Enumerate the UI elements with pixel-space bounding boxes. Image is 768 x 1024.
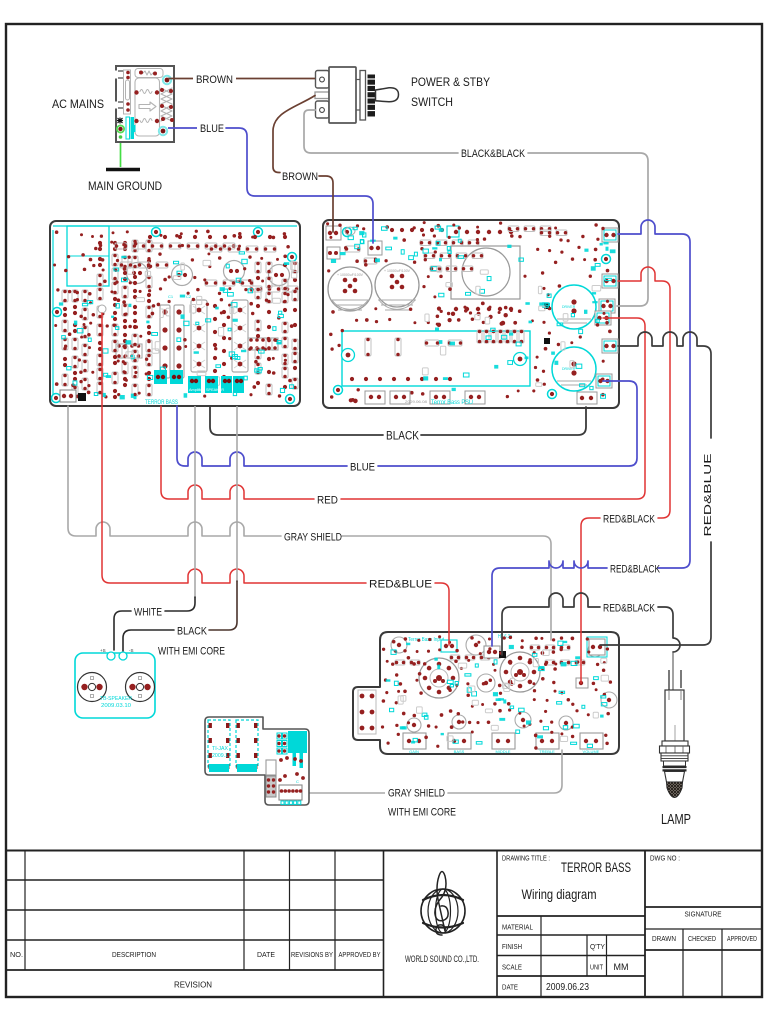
svg-text:BLACK&BLACK: BLACK&BLACK bbox=[461, 148, 526, 160]
svg-text:RED&BLUE: RED&BLUE bbox=[369, 579, 432, 591]
svg-text:TI-JAX: TI-JAX bbox=[212, 746, 229, 752]
svg-text:2009.06.23: 2009.06.23 bbox=[546, 981, 589, 993]
svg-text:MM: MM bbox=[614, 962, 629, 973]
svg-text:RED&BLUE: RED&BLUE bbox=[702, 454, 714, 537]
svg-text:WORLD SOUND CO.,LTD.: WORLD SOUND CO.,LTD. bbox=[405, 954, 479, 964]
svg-text:SWITCH: SWITCH bbox=[411, 95, 453, 109]
svg-text:BLACK: BLACK bbox=[177, 626, 208, 638]
svg-text:DATE: DATE bbox=[502, 985, 518, 992]
svg-text:C: C bbox=[296, 779, 299, 784]
svg-text:MIDDLE: MIDDLE bbox=[495, 749, 510, 754]
svg-text:APPROVED: APPROVED bbox=[727, 936, 757, 943]
svg-text:AC MAINS: AC MAINS bbox=[52, 97, 104, 111]
svg-text:+ 10000uF/100V: + 10000uF/100V bbox=[337, 273, 364, 277]
svg-text:-S: -S bbox=[129, 648, 134, 653]
svg-text:BLACK: BLACK bbox=[386, 431, 419, 443]
svg-text:+ 10000uF/100V: + 10000uF/100V bbox=[384, 269, 411, 273]
svg-text:GRAY SHIELD: GRAY SHIELD bbox=[284, 532, 342, 544]
svg-text:GAIN: GAIN bbox=[409, 749, 419, 754]
svg-text:LAMP: LAMP bbox=[661, 812, 691, 828]
svg-text:BLUE: BLUE bbox=[350, 462, 375, 474]
svg-text:BASS: BASS bbox=[454, 749, 465, 754]
svg-text:Amplifier: Amplifier bbox=[189, 388, 205, 392]
svg-text:Terror Bass PSU: Terror Bass PSU bbox=[431, 400, 473, 406]
svg-text:Wiring diagram: Wiring diagram bbox=[522, 887, 597, 902]
svg-text:BLUE: BLUE bbox=[200, 123, 224, 135]
svg-text:SCALE: SCALE bbox=[502, 965, 522, 972]
svg-text:UNIT: UNIT bbox=[590, 965, 604, 972]
svg-text:TREBLE: TREBLE bbox=[539, 749, 555, 754]
svg-text:RED&BLACK: RED&BLACK bbox=[603, 514, 656, 526]
svg-text:WITH EMI CORE: WITH EMI CORE bbox=[158, 646, 225, 658]
svg-text:TERROR BASS: TERROR BASS bbox=[561, 860, 631, 875]
svg-text:WITH EMI CORE: WITH EMI CORE bbox=[388, 807, 456, 819]
svg-text:SIGNATURE: SIGNATURE bbox=[685, 912, 722, 919]
svg-text:WHITE: WHITE bbox=[134, 607, 162, 619]
svg-text:VOLUME: VOLUME bbox=[583, 749, 600, 754]
svg-text:SPEAKER: SPEAKER bbox=[206, 388, 224, 392]
svg-text:RED: RED bbox=[317, 495, 338, 507]
svg-text:CHECKED: CHECKED bbox=[688, 936, 716, 943]
svg-text:MATERIAL: MATERIAL bbox=[502, 925, 533, 932]
svg-text:RED&BLACK: RED&BLACK bbox=[610, 564, 660, 576]
svg-text:DRAWING TITLE :: DRAWING TITLE : bbox=[502, 856, 550, 863]
svg-text:BROWN: BROWN bbox=[282, 171, 318, 183]
svg-text:REVISIONS BY: REVISIONS BY bbox=[291, 952, 333, 959]
svg-text:DRIVER: DRIVER bbox=[562, 305, 576, 309]
svg-text:POWER & STBY: POWER & STBY bbox=[411, 75, 490, 89]
svg-text:DWG NO :: DWG NO : bbox=[650, 856, 680, 863]
svg-text:+S: +S bbox=[100, 648, 106, 653]
svg-text:TERROR BASS: TERROR BASS bbox=[145, 400, 178, 406]
svg-text:DESCRIPTION: DESCRIPTION bbox=[112, 952, 156, 959]
svg-text:GRAY SHIELD: GRAY SHIELD bbox=[388, 788, 445, 800]
svg-text:REVISION: REVISION bbox=[174, 980, 212, 990]
svg-text:C2: C2 bbox=[186, 294, 192, 299]
svg-text:FINISH: FINISH bbox=[502, 944, 522, 951]
svg-text:APPROVED BY: APPROVED BY bbox=[339, 952, 381, 959]
svg-text:NO.: NO. bbox=[10, 952, 23, 959]
svg-text:C1: C1 bbox=[168, 294, 174, 299]
svg-text:RED&BLACK: RED&BLACK bbox=[603, 603, 656, 615]
svg-text:DATE: DATE bbox=[257, 952, 275, 959]
svg-text:MAIN GROUND: MAIN GROUND bbox=[88, 179, 162, 193]
svg-text:2009.03.10: 2009.03.10 bbox=[101, 703, 131, 709]
svg-text:2009.06.08: 2009.06.08 bbox=[405, 399, 428, 404]
svg-text:TB-SPEAKER: TB-SPEAKER bbox=[100, 696, 132, 702]
svg-text:2009.1: 2009.1 bbox=[212, 753, 228, 759]
svg-text:DRAWN: DRAWN bbox=[652, 936, 676, 943]
svg-text:BROWN: BROWN bbox=[196, 74, 233, 86]
svg-text:Q'TY: Q'TY bbox=[590, 944, 605, 951]
